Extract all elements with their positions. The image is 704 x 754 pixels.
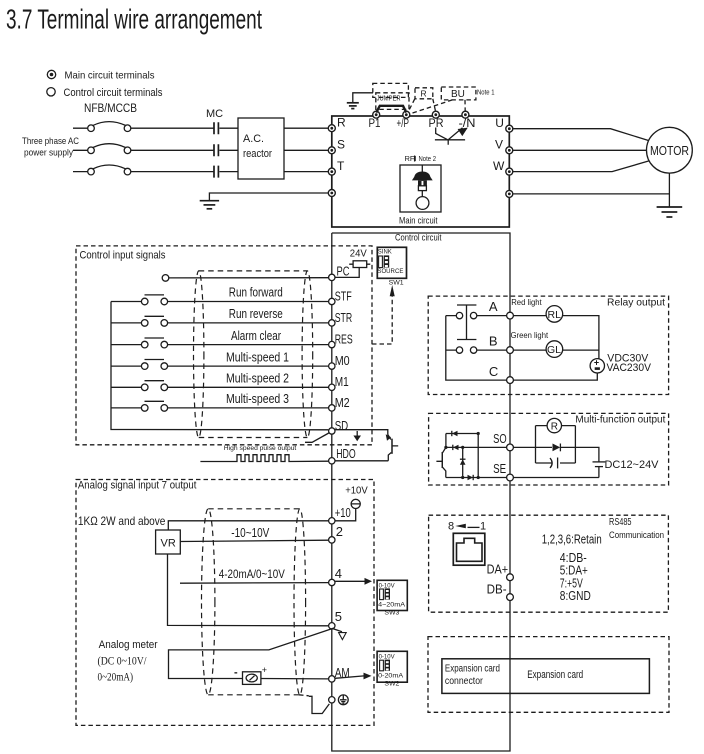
svg-text:Alarm clear: Alarm clear bbox=[231, 328, 281, 343]
svg-text:U: U bbox=[495, 116, 504, 130]
svg-text:SW1: SW1 bbox=[389, 280, 405, 286]
svg-text:A: A bbox=[489, 299, 498, 314]
svg-text:0-20mA: 0-20mA bbox=[378, 674, 403, 680]
svg-text:-10~10V: -10~10V bbox=[231, 526, 270, 540]
svg-text:SOURCE: SOURCE bbox=[377, 269, 403, 275]
svg-text:SE: SE bbox=[493, 461, 506, 476]
svg-text:MOTOR: MOTOR bbox=[650, 144, 689, 158]
svg-text:Multi-speed 3: Multi-speed 3 bbox=[226, 391, 289, 406]
svg-text:Control input signals: Control input signals bbox=[80, 250, 166, 262]
svg-text:Three phase AC: Three phase AC bbox=[22, 136, 79, 147]
svg-text:Control circuit terminals: Control circuit terminals bbox=[64, 87, 163, 99]
svg-text:connector: connector bbox=[445, 676, 484, 687]
svg-text:Expansion card: Expansion card bbox=[445, 663, 500, 674]
svg-text:C: C bbox=[489, 364, 498, 379]
svg-text:JUMPER: JUMPER bbox=[377, 96, 401, 103]
svg-text:Note 1: Note 1 bbox=[477, 90, 495, 97]
svg-text:SO: SO bbox=[493, 431, 507, 446]
svg-text:8:GND: 8:GND bbox=[560, 588, 591, 603]
svg-text:T: T bbox=[337, 159, 345, 173]
svg-text:High speed pulse output: High speed pulse output bbox=[224, 445, 297, 452]
svg-text:0-10V: 0-10V bbox=[379, 654, 395, 660]
svg-text:VR: VR bbox=[161, 538, 176, 550]
svg-text:VAC230V: VAC230V bbox=[607, 362, 652, 374]
svg-text:HDO: HDO bbox=[336, 446, 356, 461]
svg-text:R: R bbox=[551, 422, 558, 433]
svg-text:power supply: power supply bbox=[24, 148, 73, 159]
svg-text:Green light: Green light bbox=[511, 331, 549, 340]
svg-text:3.7 Terminal wire arrangement: 3.7 Terminal wire arrangement bbox=[6, 4, 262, 35]
svg-text:Main circuit terminals: Main circuit terminals bbox=[65, 70, 155, 82]
svg-text:DC12~24V: DC12~24V bbox=[605, 459, 660, 471]
svg-text:Analog signal input 7 output: Analog signal input 7 output bbox=[78, 479, 196, 491]
svg-text:0~20mA): 0~20mA) bbox=[98, 669, 134, 683]
svg-text:RL: RL bbox=[548, 309, 562, 321]
svg-text:DA+: DA+ bbox=[487, 561, 509, 576]
svg-text:BU: BU bbox=[451, 89, 465, 100]
svg-text:Relay output: Relay output bbox=[607, 297, 665, 309]
svg-text:PC: PC bbox=[337, 264, 350, 279]
svg-text:Expansion card: Expansion card bbox=[527, 669, 583, 681]
svg-text:Run reverse: Run reverse bbox=[229, 306, 283, 321]
svg-text:W: W bbox=[493, 159, 505, 173]
svg-text:NFB/MCCB: NFB/MCCB bbox=[84, 103, 137, 115]
svg-text:4: 4 bbox=[335, 566, 342, 581]
svg-text:1KΩ 2W and above: 1KΩ 2W and above bbox=[78, 514, 166, 528]
svg-text:M1: M1 bbox=[335, 374, 349, 389]
svg-text:SW3: SW3 bbox=[384, 611, 400, 617]
svg-text:(DC 0~10V/: (DC 0~10V/ bbox=[98, 654, 148, 668]
svg-text:1: 1 bbox=[480, 521, 486, 533]
svg-text:P1: P1 bbox=[369, 118, 381, 130]
svg-text:Control circuit: Control circuit bbox=[395, 233, 442, 243]
svg-text:S: S bbox=[337, 138, 345, 152]
svg-text:+10V: +10V bbox=[345, 485, 368, 497]
svg-text:2: 2 bbox=[336, 524, 343, 539]
svg-text:5: 5 bbox=[335, 609, 342, 624]
svg-text:+10: +10 bbox=[335, 505, 351, 520]
svg-text:Multi-function output: Multi-function output bbox=[575, 414, 665, 426]
svg-text:B: B bbox=[489, 334, 498, 349]
svg-text:A.C.: A.C. bbox=[243, 133, 264, 145]
svg-text:DB-: DB- bbox=[487, 581, 507, 596]
svg-text:STR: STR bbox=[335, 310, 353, 325]
svg-text:Multi-speed 2: Multi-speed 2 bbox=[226, 371, 289, 386]
svg-text:4~20mA: 4~20mA bbox=[378, 602, 405, 608]
svg-text:Main circuit: Main circuit bbox=[399, 216, 438, 227]
svg-text:+: + bbox=[594, 357, 599, 367]
svg-text:Analog meter: Analog meter bbox=[99, 639, 158, 651]
svg-text:24V: 24V bbox=[350, 249, 367, 260]
svg-text:+/P: +/P bbox=[397, 118, 410, 130]
svg-text:-: - bbox=[234, 666, 238, 678]
svg-text:Red light: Red light bbox=[511, 298, 542, 307]
svg-text:RES: RES bbox=[335, 331, 353, 346]
svg-text:8: 8 bbox=[448, 521, 454, 533]
svg-text:M2: M2 bbox=[335, 395, 350, 410]
svg-text:reactor: reactor bbox=[243, 148, 272, 160]
svg-text:SW2: SW2 bbox=[384, 682, 400, 688]
svg-text:RS485: RS485 bbox=[609, 517, 632, 528]
svg-text:4-20mA/0~10V: 4-20mA/0~10V bbox=[219, 567, 285, 581]
svg-text:Run forward: Run forward bbox=[229, 285, 283, 300]
svg-text:1,2,3,6:Retain: 1,2,3,6:Retain bbox=[542, 531, 602, 546]
svg-text:R: R bbox=[337, 116, 346, 130]
svg-text:SD: SD bbox=[335, 418, 349, 433]
svg-text:SINK: SINK bbox=[378, 249, 392, 255]
svg-text:+: + bbox=[262, 665, 267, 675]
svg-text:Multi-speed 1: Multi-speed 1 bbox=[226, 349, 289, 364]
svg-text:M0: M0 bbox=[335, 353, 350, 368]
svg-text:Communication: Communication bbox=[609, 530, 664, 541]
svg-text:MC: MC bbox=[206, 108, 223, 120]
svg-text:V: V bbox=[495, 138, 503, 152]
svg-text:GL: GL bbox=[547, 344, 561, 356]
svg-text:R: R bbox=[421, 89, 427, 99]
svg-text:STF: STF bbox=[335, 288, 352, 303]
svg-text:Note 2: Note 2 bbox=[419, 154, 437, 163]
svg-text:0-10V: 0-10V bbox=[379, 583, 395, 589]
